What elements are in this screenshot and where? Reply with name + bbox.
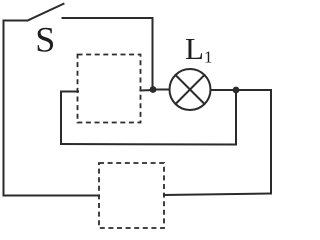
wire top horizontal	[63, 17, 153, 19]
dashed placeholder box 1 (parallel with lamp)	[78, 55, 141, 123]
wire top-left horizontal	[4, 20, 28, 22]
wire right of switch down to node	[152, 18, 154, 90]
wire lamp right to node	[211, 89, 237, 91]
node junction dot right of lamp	[233, 87, 240, 94]
wire stub to dashed box 1 left	[61, 91, 78, 93]
wire right vertical	[270, 90, 272, 194]
wire parallel branch bottom horizontal	[61, 143, 236, 146]
switch S blade	[28, 4, 64, 21]
svg-text:S: S	[35, 19, 55, 59]
wire bottom right horizontal	[164, 194, 271, 196]
wire bottom left horizontal	[4, 195, 100, 197]
wire node to lamp left	[153, 89, 170, 91]
wire parallel branch left vertical	[60, 92, 62, 145]
wire parallel branch right vertical	[235, 90, 237, 145]
lamp L1 circle	[170, 69, 211, 110]
node junction dot left of lamp	[150, 86, 157, 93]
lamp L1 cross	[176, 75, 205, 104]
wire outer left vertical	[3, 21, 5, 196]
wire node to right edge	[236, 89, 271, 91]
dashed placeholder box 2 (in bottom wire)	[99, 163, 164, 228]
wire dashed box 1 right to node	[141, 89, 154, 92]
